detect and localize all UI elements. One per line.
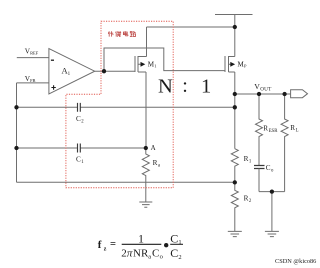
svg-text:C: C: [152, 248, 159, 260]
svg-text:A: A: [151, 144, 156, 152]
svg-text:R: R: [290, 124, 295, 132]
svg-text:a: a: [158, 163, 161, 168]
svg-text:R: R: [244, 194, 249, 202]
svg-text:f: f: [98, 239, 102, 251]
node dot VOUT-RESR: [257, 92, 261, 96]
formula fraction 1 bar: [122, 243, 162, 245]
char 路: [130, 31, 136, 36]
svg-text:CSDN @kico86: CSDN @kico86: [275, 258, 316, 265]
svg-text:N: N: [158, 76, 173, 98]
wire C1 row: [17, 147, 146, 149]
transistor MP arrow: [230, 62, 235, 67]
transistor MP: [225, 56, 231, 72]
svg-text:P: P: [244, 64, 247, 69]
node dot R1-R2 feedback: [233, 180, 237, 184]
svg-text:2: 2: [249, 199, 252, 204]
node dot VFB-C1: [14, 146, 18, 150]
svg-text:2: 2: [178, 254, 181, 261]
transistor M1 arrow: [141, 62, 146, 67]
svg-text:a: a: [148, 253, 151, 260]
node dot op-amp output: [102, 69, 106, 73]
op-amp minus sign: [51, 59, 54, 61]
wire output bottom: [259, 191, 285, 193]
wire Co bottom: [258, 169, 260, 192]
svg-text:FB: FB: [30, 78, 35, 83]
svg-text:1: 1: [249, 159, 252, 164]
wire VFB input: [17, 82, 49, 84]
svg-text:π: π: [127, 248, 133, 260]
wire feedback bottom: [17, 181, 235, 183]
transistor M1: [135, 56, 141, 72]
resistor RL branch: [281, 94, 288, 192]
wire VDD rail: [215, 14, 253, 16]
wire ground stem output: [271, 192, 273, 232]
ground under R2: [228, 231, 242, 236]
wire C2 row: [17, 106, 235, 108]
resistor Ra: [142, 148, 149, 202]
node dot C2-R1: [233, 105, 237, 109]
svg-text:1: 1: [178, 239, 181, 246]
label 补偿电路 (drawn strokes): [108, 31, 136, 36]
formula bullet: [164, 243, 168, 247]
resistor R1 chain vertical: [234, 94, 236, 149]
wire left feedback rail: [16, 83, 18, 182]
svg-text:R: R: [153, 159, 158, 167]
svg-text:R: R: [244, 155, 249, 163]
svg-text:L: L: [296, 128, 299, 133]
op-amp plus sign: [51, 85, 55, 89]
svg-text:2: 2: [81, 120, 84, 125]
svg-text:R: R: [263, 124, 268, 132]
capacitor C2: [78, 103, 81, 112]
wire op-amp output to M1 gate: [95, 70, 135, 72]
char 补: [108, 31, 113, 36]
svg-text:z: z: [104, 246, 107, 252]
svg-text:o: o: [271, 168, 274, 173]
svg-text:C: C: [170, 231, 178, 245]
wire VDD stem: [234, 15, 236, 28]
ground under output: [265, 231, 279, 236]
svg-text:1: 1: [154, 64, 156, 69]
svg-text:1: 1: [138, 231, 144, 245]
wire VREF input: [17, 57, 49, 59]
svg-text:1: 1: [81, 160, 84, 165]
node dot VDD: [233, 25, 237, 29]
node dot VFB-C2: [14, 105, 18, 109]
capacitor C1: [78, 144, 81, 153]
svg-text::: :: [182, 75, 188, 97]
svg-text:NR: NR: [133, 248, 149, 260]
resistor R1: [231, 149, 238, 183]
wire VOUT: [235, 93, 291, 95]
svg-text:o: o: [160, 253, 163, 260]
wire mirror top (M1 drain to VDD node): [138, 27, 235, 57]
op-amp A1: [49, 49, 95, 95]
svg-text:1: 1: [201, 76, 211, 98]
node dot VOUT-MP: [233, 92, 237, 96]
svg-text:REF: REF: [30, 51, 39, 56]
transistor M1 source down to node A: [138, 72, 146, 148]
char 偿: [116, 31, 121, 36]
resistor RESR branch: [256, 94, 263, 166]
svg-text:C: C: [170, 246, 178, 260]
resistor R2: [231, 182, 238, 231]
wire MP source to VOUT: [229, 72, 235, 94]
wire feedforward to MP gate: [104, 48, 225, 71]
capacitor Co: [254, 166, 265, 169]
output tag: [291, 90, 308, 98]
svg-text:OUT: OUT: [260, 86, 272, 92]
wire MP drain: [229, 27, 235, 57]
svg-text:=: =: [110, 239, 116, 250]
node dot output ground: [270, 189, 274, 193]
char 电: [123, 31, 128, 36]
svg-text:1: 1: [68, 72, 71, 77]
ground under Ra: [139, 202, 152, 207]
svg-text:ESR: ESR: [269, 129, 279, 134]
node dot VOUT-RL: [282, 92, 286, 96]
compensation box (red dashed): [66, 21, 173, 188]
node dot A: [144, 146, 148, 150]
